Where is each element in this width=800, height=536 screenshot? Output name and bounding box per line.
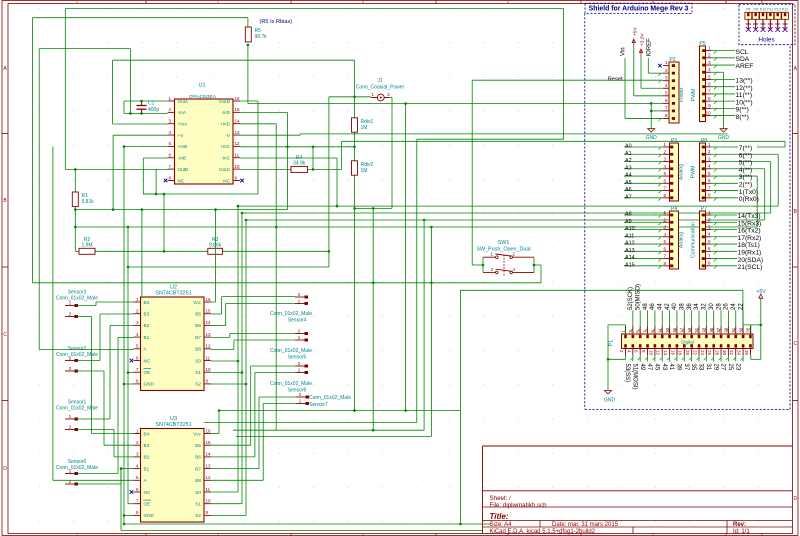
svg-text:IOREF: IOREF	[647, 38, 653, 57]
net label SDA	[736, 56, 750, 63]
svg-text:Conn_01x02_Male: Conn_01x02_Male	[309, 395, 351, 401]
svg-text:U1: U1	[199, 83, 206, 89]
resistor R5 (Rbias)	[245, 27, 267, 42]
wire A13 wire	[624, 251, 663, 254]
wire P5 pin10 to label	[711, 116, 735, 119]
svg-text:P9: P9	[753, 8, 757, 12]
wire net OutB top loop	[65, 9, 563, 170]
svg-text:P1: P1	[609, 340, 615, 346]
svg-text:PWM: PWM	[691, 89, 697, 102]
wire A11 wire	[624, 237, 663, 240]
power symbol +5V (P2)	[632, 27, 638, 46]
svg-text:8: 8	[665, 113, 668, 119]
svg-text:14: 14	[206, 320, 212, 325]
net label 24	[731, 303, 737, 310]
svg-text:1M: 1M	[361, 125, 368, 131]
svg-text:Conn_Coaxial_Power: Conn_Coaxial_Power	[356, 85, 405, 91]
net label A7	[625, 194, 632, 200]
wire A15 wire	[624, 266, 663, 269]
svg-text:OE: OE	[144, 502, 151, 507]
svg-text:A11: A11	[625, 233, 634, 239]
wire A5 wire	[624, 183, 663, 186]
net label 19(Rx1)	[738, 250, 762, 257]
svg-text:16: 16	[670, 350, 675, 356]
svg-text:5(**): 5(**)	[739, 160, 752, 167]
wire net +InA / J1 feed	[113, 60, 355, 124]
svg-text:B2: B2	[144, 323, 150, 328]
svg-text:-InB: -InB	[178, 156, 187, 161]
svg-text:KiCad E.D.A. kicad 5.1.5+dfsg: KiCad E.D.A. kicad 5.1.5+dfsg1-2build2	[490, 529, 596, 535]
net label 26	[724, 303, 730, 310]
wire U2 B6 wire	[211, 303, 295, 325]
connector Sensor2 Conn_01x02_Male	[56, 346, 98, 373]
svg-text:37: 37	[683, 364, 689, 371]
net label 38	[680, 303, 686, 310]
wire P1 +5V bracket	[743, 298, 762, 359]
svg-text:20: 20	[685, 350, 690, 356]
wire P7 pin4 wire	[711, 237, 737, 240]
svg-text:43: 43	[661, 364, 667, 371]
wire Sensor0 pin1 wire	[77, 338, 134, 474]
op-amp U1 OPA4353EA	[164, 83, 244, 185]
svg-text:4(**): 4(**)	[739, 167, 752, 174]
wire P7 pin5 wire	[711, 244, 737, 247]
wire P1 bottom pin34 wire	[741, 355, 744, 361]
wire P1 bottom pin26 wire	[711, 355, 714, 361]
svg-text:P10: P10	[760, 8, 766, 12]
wire A10 wire	[624, 230, 663, 233]
svg-text:29: 29	[712, 364, 718, 371]
net label 37	[683, 364, 689, 371]
hole connector P6	[745, 8, 752, 32]
svg-text:51(MOSI): 51(MOSI)	[631, 364, 637, 390]
svg-text:36: 36	[687, 303, 693, 310]
wire P1 top pin13 wire	[667, 310, 670, 331]
svg-text:13: 13	[235, 130, 241, 135]
wire GND U2 U3 rail	[120, 145, 491, 530]
svg-text:98.7k: 98.7k	[255, 34, 268, 40]
svg-text:19(Rx1): 19(Rx1)	[738, 250, 762, 257]
svg-text:30: 30	[709, 303, 715, 310]
svg-text:Analog: Analog	[679, 164, 685, 180]
net label SCL	[736, 49, 749, 56]
svg-text:S1: S1	[195, 370, 201, 375]
net label IOREF	[647, 38, 653, 57]
wire U1 +V row	[113, 135, 167, 209]
svg-text:+InD: +InD	[220, 122, 231, 127]
svg-text:Conn_01x02_Male: Conn_01x02_Male	[56, 465, 98, 471]
svg-text:52(SCK): 52(SCK)	[628, 287, 634, 310]
hole connector P12	[774, 8, 781, 32]
net label 43	[661, 364, 667, 371]
net label 16(Tx2)	[738, 228, 761, 235]
svg-text:B3: B3	[144, 312, 150, 317]
wire U1 OutB row	[65, 168, 167, 171]
svg-text:C: C	[793, 341, 797, 347]
wire U3 B7 wire	[211, 397, 296, 469]
wire A0 wire	[624, 147, 663, 150]
note: Holes box	[739, 4, 795, 45]
wire P7 pin2 wire	[711, 222, 737, 225]
net label A2	[625, 158, 632, 164]
svg-text:8(**): 8(**)	[736, 114, 749, 121]
net label A6	[625, 187, 632, 193]
wire P1 top pin5 wire	[638, 310, 641, 331]
svg-text:10: 10	[648, 350, 653, 356]
svg-text:Sheet: /: Sheet: /	[490, 495, 512, 502]
svg-text:10: 10	[706, 110, 712, 115]
net label 12(**)	[736, 85, 753, 92]
wire P1 top pin3 wire	[630, 310, 633, 331]
note: (R5 is Rbias)	[260, 19, 293, 25]
svg-text:+V: +V	[178, 133, 185, 138]
svg-text:41: 41	[668, 364, 674, 371]
svg-text:OutB: OutB	[178, 167, 189, 172]
wire U2 B7 wire	[211, 334, 295, 338]
net label 35	[690, 364, 696, 371]
svg-text:16: 16	[206, 297, 212, 302]
connector Sensor5 Conn_01x02_Male	[270, 328, 312, 360]
svg-text:16(Tx2): 16(Tx2)	[738, 228, 761, 235]
wire J1 loop	[353, 60, 392, 430]
wire +5V distribution	[211, 290, 743, 524]
svg-text:B8: B8	[195, 478, 201, 483]
net label 39	[676, 364, 682, 371]
svg-text:15: 15	[206, 309, 212, 314]
wire P1 top pin29 wire	[726, 310, 729, 331]
svg-text:P12: P12	[774, 8, 780, 12]
svg-text:B5: B5	[195, 312, 201, 317]
wire U3 A wire	[53, 147, 134, 481]
svg-text:45: 45	[653, 364, 659, 371]
net label A10	[625, 226, 635, 232]
net label 7(**)	[739, 145, 752, 152]
svg-text:23: 23	[734, 364, 740, 371]
svg-text:11(**): 11(**)	[736, 92, 753, 99]
svg-text:23: 23	[702, 327, 707, 333]
svg-text:GND: GND	[144, 513, 155, 518]
svg-text:25: 25	[727, 364, 733, 371]
svg-text:39: 39	[676, 364, 682, 371]
svg-text:A14: A14	[625, 255, 635, 261]
net label 21(SCL)	[738, 264, 763, 271]
net label 3(**)	[739, 174, 752, 181]
connector P4 Analog	[663, 206, 685, 269]
wire P8 pin5 wire	[711, 176, 757, 179]
net label 50(MISO)	[635, 284, 641, 310]
net label 52(SCK)	[628, 287, 634, 310]
svg-text:2: 2	[387, 92, 390, 97]
wire select S1 net	[211, 162, 771, 504]
wire P7 pin1 wire	[711, 215, 737, 218]
svg-text:49: 49	[639, 364, 645, 371]
wire A9 wire	[624, 222, 663, 225]
svg-text:B3: B3	[144, 443, 150, 448]
net label 51(MOSI)	[631, 364, 637, 390]
svg-text:OE: OE	[144, 370, 151, 375]
wire P1 top pin25 wire	[711, 310, 714, 331]
push button SW1 SW_Push_Open_Dual	[476, 240, 535, 276]
wire P5 pin3 to label	[711, 65, 735, 68]
connector P8 PWM	[691, 138, 712, 201]
wire P1 bottom pin24 wire	[704, 355, 707, 361]
svg-text:B1: B1	[144, 335, 150, 340]
svg-text:6(**): 6(**)	[739, 152, 752, 159]
svg-text:Conn_01x02_Male: Conn_01x02_Male	[56, 296, 98, 302]
net label 46	[650, 303, 656, 310]
svg-text:1: 1	[371, 92, 374, 97]
svg-text:1: 1	[76, 0, 78, 4]
net label 11(**)	[736, 92, 753, 99]
wire Sensor3 pin2 wire	[77, 317, 134, 434]
wire P8 pin6 wire	[711, 183, 738, 186]
svg-text:7(**): 7(**)	[739, 145, 752, 152]
svg-text:1.9M: 1.9M	[81, 242, 92, 248]
svg-text:NC: NC	[178, 178, 185, 183]
wire +3V3 to P2 pin4	[641, 56, 663, 88]
wire P1 pins 1,2 to GND	[607, 325, 626, 391]
svg-text:Vcc: Vcc	[193, 431, 201, 436]
svg-text:Analog: Analog	[679, 232, 685, 248]
svg-text:4: 4	[507, 0, 509, 4]
svg-text:3: 3	[362, 532, 364, 536]
wire U3 B5 wire	[211, 366, 295, 445]
svg-text:25: 25	[709, 327, 714, 333]
wire net to P2 pin6	[247, 44, 652, 411]
wire Sensor1 pin1 wire	[77, 326, 134, 420]
svg-text:2(**): 2(**)	[739, 182, 752, 189]
wire P1 top pin11 wire	[660, 310, 663, 331]
wire P1 bottom pin6 wire	[638, 355, 641, 361]
svg-text:13: 13	[206, 332, 212, 337]
wire P1 top pin23 wire	[704, 310, 707, 331]
hole connector P10	[760, 8, 767, 32]
net label 8(**)	[736, 114, 749, 121]
svg-text:B7: B7	[195, 466, 201, 471]
svg-text:(R5 Is Rbias): (R5 Is Rbias)	[260, 19, 293, 25]
net label 4(**)	[739, 167, 752, 174]
svg-text:14(Tx3): 14(Tx3)	[738, 213, 761, 220]
wire select S2 net	[211, 169, 765, 516]
svg-text:11: 11	[206, 487, 211, 492]
svg-text:14: 14	[235, 119, 241, 124]
svg-text:Communication: Communication	[691, 222, 697, 258]
svg-text:2: 2	[217, 532, 219, 536]
svg-text:10: 10	[206, 499, 212, 504]
svg-text:0(Rx0): 0(Rx0)	[739, 196, 759, 203]
svg-text:34: 34	[737, 350, 742, 356]
svg-text:Sensor5: Sensor5	[288, 355, 307, 361]
wire A8 wire	[624, 215, 663, 218]
svg-text:-InA: -InA	[178, 110, 187, 115]
ground symbol GND (P2)	[646, 129, 658, 141]
svg-text:Conn_01x02_Male: Conn_01x02_Male	[270, 348, 312, 354]
wire A3 wire	[624, 169, 663, 172]
svg-text:Rev:: Rev:	[733, 522, 746, 528]
svg-text:C1: C1	[148, 101, 155, 107]
svg-text:22: 22	[738, 303, 744, 310]
no-connect P2 pin1	[658, 64, 662, 68]
wire Sensor1 pin2 wire	[77, 430, 134, 457]
hole connector P13	[782, 8, 789, 32]
net label 49	[639, 364, 645, 371]
resistor R4	[291, 155, 308, 173]
analog mux U2 SN74CBT3251	[130, 285, 211, 391]
net label 14(Tx3)	[738, 213, 761, 220]
svg-text:31: 31	[731, 327, 736, 333]
note: Shield for Arduino Mege Rev 3	[585, 3, 692, 13]
wire P5 pin7 to label	[711, 94, 735, 97]
svg-text:46: 46	[650, 303, 656, 310]
svg-text:3: 3	[362, 0, 364, 4]
wire U1 OutD row	[143, 101, 258, 194]
wire P1 bottom pin12 wire	[660, 355, 663, 361]
wire P7 pin6 wire	[711, 251, 737, 254]
svg-text:48: 48	[643, 303, 649, 310]
wire U2 A wire	[39, 349, 133, 351]
svg-text:-InC: -InC	[221, 156, 230, 161]
wire A4 wire	[624, 176, 663, 179]
svg-text:14: 14	[663, 350, 668, 356]
net label 0(Rx0)	[739, 196, 759, 203]
wire Sensor3 pin1 wire	[77, 302, 134, 306]
wire P1 top pin7 wire	[645, 310, 648, 331]
svg-text:11: 11	[206, 355, 211, 360]
svg-text:15: 15	[206, 440, 212, 445]
net label Vin	[621, 47, 627, 56]
net label 34	[694, 303, 700, 310]
net label A11	[625, 233, 634, 239]
svg-text:A7: A7	[625, 194, 632, 200]
net label A3	[625, 165, 632, 171]
net label 1(Tx0)	[739, 189, 758, 196]
wire P1 top pin31 wire	[733, 310, 736, 331]
svg-text:31: 31	[705, 364, 711, 371]
svg-text:29: 29	[724, 327, 729, 333]
svg-text:53(SS): 53(SS)	[624, 364, 630, 383]
wire U2 Vcc wire	[142, 210, 216, 302]
svg-text:Reset: Reset	[608, 77, 623, 83]
resistor R2	[79, 237, 95, 255]
svg-text:B2: B2	[144, 455, 150, 460]
svg-text:S2: S2	[195, 382, 201, 387]
wire +5V to P2 pin5	[634, 46, 663, 96]
svg-text:3(**): 3(**)	[739, 174, 752, 181]
wire P1 top pin33 wire	[741, 310, 744, 331]
svg-text:NC: NC	[223, 178, 230, 183]
analog mux U3 SN74CBT3251	[130, 416, 211, 522]
svg-text:SN74CBT3251: SN74CBT3251	[155, 291, 191, 297]
svg-text:S0: S0	[195, 358, 201, 363]
net label 9(**)	[736, 107, 749, 114]
svg-text:20(SDA): 20(SDA)	[738, 257, 764, 264]
svg-text:26: 26	[724, 303, 730, 310]
net label 30	[709, 303, 715, 310]
svg-text:SCL: SCL	[736, 49, 749, 56]
net label A1	[625, 151, 632, 157]
svg-text:Conn_01x02_Male: Conn_01x02_Male	[270, 311, 312, 317]
wire P1 bottom pin18 wire	[682, 355, 685, 361]
svg-text:Size: A4: Size: A4	[490, 522, 513, 528]
svg-text:13: 13	[206, 463, 212, 468]
wire P1 bottom pin8 wire	[645, 355, 648, 361]
svg-text:B6: B6	[195, 455, 201, 460]
svg-text:P11: P11	[767, 8, 773, 12]
hole connector P9	[752, 8, 759, 32]
svg-text:13: 13	[665, 327, 670, 333]
svg-text:27: 27	[716, 327, 721, 333]
svg-text:Shield for Arduino Mege Rev 3: Shield for Arduino Mege Rev 3	[589, 5, 689, 12]
net label 36	[687, 303, 693, 310]
svg-text:AREF: AREF	[736, 63, 754, 70]
net label 13(**)	[736, 78, 753, 85]
connector P1 Digital	[609, 326, 754, 356]
wire U1 -InB row	[143, 158, 167, 251]
svg-text:35: 35	[690, 364, 696, 371]
wire P1 bottom pin30 wire	[726, 355, 729, 361]
wire P1 top pin19 wire	[689, 310, 692, 331]
net label AREF	[736, 63, 754, 70]
wire P1 bottom pin14 wire	[667, 355, 670, 361]
wire P8 pin3 wire	[711, 162, 771, 165]
svg-text:+3,3V: +3,3V	[640, 33, 646, 46]
svg-text:9(**): 9(**)	[736, 107, 749, 114]
wire Vin to P2 pin8	[625, 58, 663, 121]
svg-text:A9: A9	[625, 219, 632, 225]
net label 40	[672, 303, 678, 310]
net label 42	[665, 303, 671, 310]
svg-text:OutA: OutA	[178, 99, 190, 104]
svg-text:B4: B4	[144, 300, 150, 305]
net label Reset	[608, 77, 623, 83]
svg-text:S1: S1	[195, 502, 201, 507]
wire P1 top pin17 wire	[682, 310, 685, 331]
svg-text:18(Ts1): 18(Ts1)	[738, 242, 760, 249]
wire P8 pin7 wire	[711, 191, 738, 194]
svg-text:12: 12	[206, 475, 212, 480]
net label A5	[625, 180, 632, 186]
svg-text:B7: B7	[195, 335, 201, 340]
svg-text:Conn_01x02_Male: Conn_01x02_Male	[270, 381, 312, 387]
net label 2(**)	[739, 182, 752, 189]
svg-text:5: 5	[665, 90, 668, 96]
svg-text:50(MISO): 50(MISO)	[635, 284, 641, 310]
wire A12 wire	[624, 244, 663, 247]
power symbol +5V (P1)	[756, 289, 766, 298]
net label 10(**)	[736, 99, 753, 106]
svg-text:+InC: +InC	[220, 144, 231, 149]
svg-text:A1: A1	[625, 151, 632, 157]
net label 25	[727, 364, 733, 371]
svg-text:SW1: SW1	[498, 240, 510, 246]
wire P1 bottom pin22 wire	[696, 355, 699, 361]
wire P8 pin8 wire	[711, 198, 738, 201]
wire U1 -InC row	[240, 158, 337, 206]
net label 32	[702, 303, 708, 310]
wire A14 wire	[624, 259, 663, 262]
svg-text:10: 10	[235, 164, 241, 169]
svg-text:11: 11	[657, 328, 662, 333]
svg-text:12: 12	[235, 141, 241, 146]
net label 29	[712, 364, 718, 371]
net label 18(Ts1)	[738, 242, 760, 249]
svg-text:3: 3	[665, 75, 668, 81]
wire Sensor2 pin1 wire	[77, 314, 134, 361]
net label A4	[625, 173, 632, 179]
wire P1 top pin27 wire	[718, 310, 721, 331]
svg-text:GND: GND	[604, 398, 616, 404]
wire P5 pin5 to label	[711, 79, 735, 82]
